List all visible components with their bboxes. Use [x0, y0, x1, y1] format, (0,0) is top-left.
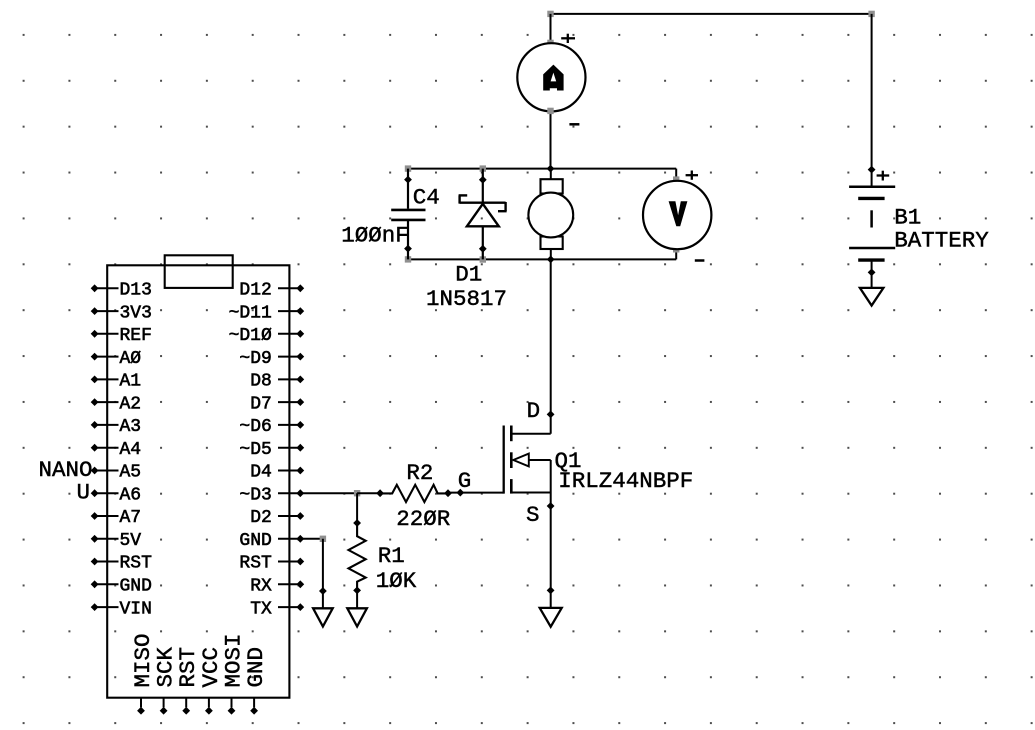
- svg-text:U: U: [76, 480, 90, 506]
- pin GND (right): [239, 531, 304, 551]
- svg-text:D12: D12: [239, 281, 271, 301]
- svg-text:D13: D13: [120, 281, 152, 301]
- svg-text:1N5817: 1N5817: [426, 286, 507, 312]
- svg-text:R1: R1: [378, 543, 405, 569]
- svg-text:RX: RX: [250, 577, 272, 597]
- value label 10K: [376, 568, 417, 594]
- junction: drain pin: [547, 411, 555, 419]
- svg-text:D1: D1: [455, 261, 482, 287]
- wire: down to ground: [319, 539, 327, 608]
- wire: lower rail C4/D1/motor/voltmeter: [405, 256, 676, 262]
- ground (battery): [860, 288, 884, 306]
- pin TX (right): [250, 599, 304, 619]
- pin RST (bottom): [175, 647, 201, 715]
- svg-text:5V: 5V: [120, 531, 142, 551]
- motor M1: [528, 169, 573, 260]
- svg-text:A7: A7: [120, 508, 142, 528]
- svg-text:~D6: ~D6: [239, 417, 271, 437]
- svg-text:A5: A5: [120, 463, 142, 483]
- pin GND (left): [91, 577, 152, 597]
- voltmeter circle: [643, 181, 711, 249]
- label G (gate): [458, 468, 472, 494]
- reference label B1: [894, 205, 921, 231]
- svg-text:GND: GND: [239, 531, 271, 551]
- pin D4 (right): [250, 463, 304, 483]
- diode D1 (schottky): [459, 169, 507, 260]
- battery + label: [877, 171, 890, 181]
- pin GND (bottom): [243, 647, 269, 715]
- pin A2 (left): [91, 394, 141, 414]
- svg-text:S: S: [526, 502, 540, 528]
- value label IRLZ44NBPF: [558, 468, 693, 494]
- pin D2 (right): [250, 508, 304, 528]
- ground (R1): [347, 608, 367, 626]
- svg-text:A2: A2: [120, 394, 142, 414]
- svg-text:D7: D7: [250, 394, 272, 414]
- pin ~D3 (right): [239, 485, 304, 505]
- pin AØ (left): [91, 349, 142, 369]
- svg-text:D4: D4: [250, 463, 272, 483]
- svg-text:~D5: ~D5: [239, 440, 271, 460]
- svg-text:1ØØnF: 1ØØnF: [341, 222, 409, 248]
- wire: voltmeter bottom stub: [673, 246, 679, 259]
- svg-text:REF: REF: [120, 326, 152, 346]
- label S (source): [526, 502, 540, 528]
- junction: R1 top on D3 wire: [354, 490, 360, 496]
- pin RX (right): [250, 577, 304, 597]
- wire: R1 to ground: [356, 590, 358, 608]
- svg-text:IRLZ44NBPF: IRLZ44NBPF: [558, 468, 693, 494]
- pin A6 (left): [91, 485, 141, 505]
- svg-text:A3: A3: [120, 417, 142, 437]
- reference label D1: [455, 261, 482, 287]
- wire: ~D3 pin to R1 junction: [300, 492, 357, 494]
- ground (nano GND): [313, 608, 333, 626]
- wire: voltmeter top stub: [673, 169, 679, 183]
- pin D7 (right): [250, 394, 304, 414]
- svg-text:TX: TX: [250, 599, 272, 619]
- wire: top rail ammeter to battery: [547, 11, 875, 17]
- pin ~D5 (right): [239, 440, 304, 460]
- pin A4 (left): [91, 440, 141, 460]
- transistor Q1 MOSFET: [504, 426, 551, 507]
- wire: battery drop from top rail: [871, 14, 873, 186]
- ammeter A1 circle: [517, 43, 585, 111]
- svg-text:C4: C4: [413, 185, 440, 211]
- svg-text:D: D: [527, 398, 541, 424]
- ammeter - terminal label: [569, 123, 579, 126]
- svg-text:1ØK: 1ØK: [376, 568, 417, 594]
- wire: lower rail to MOSFET drain: [550, 259, 552, 433]
- battery B1: [849, 187, 895, 288]
- svg-text:AØ: AØ: [120, 349, 142, 369]
- pin RST (left): [91, 554, 152, 574]
- svg-text:A1: A1: [120, 372, 142, 392]
- value label C4: [413, 185, 440, 211]
- reference label Q1: [555, 448, 582, 474]
- svg-text:BATTERY: BATTERY: [894, 227, 989, 253]
- ammeter + terminal label: [561, 34, 575, 43]
- Nano USB notch: [165, 255, 233, 288]
- svg-text:A4: A4: [120, 440, 142, 460]
- svg-text:~D3: ~D3: [239, 485, 271, 505]
- svg-text:VIN: VIN: [120, 599, 152, 619]
- wire: ammeter bottom to motor top rail: [547, 108, 553, 169]
- pin ~D6 (right): [239, 417, 304, 437]
- value label BATTERY: [894, 227, 989, 253]
- wire: source to ground: [547, 502, 555, 608]
- svg-text:A6: A6: [120, 485, 142, 505]
- Nano name label NANO: [38, 457, 92, 483]
- Arduino Nano U body: [107, 265, 289, 697]
- wire: junction down to R1: [353, 493, 361, 527]
- pin 5V (left): [91, 531, 142, 551]
- wire: upper rail C4/D1/motor/voltmeter: [405, 165, 676, 171]
- svg-text:~D9: ~D9: [239, 349, 271, 369]
- pin D12 (right): [239, 281, 304, 301]
- voltmeter - terminal label: [695, 259, 705, 262]
- pin A1 (left): [91, 372, 141, 392]
- reference label R2: [406, 460, 433, 486]
- svg-text:R2: R2: [406, 460, 433, 486]
- pin ~D9 (right): [239, 349, 304, 369]
- pin VIN (left): [91, 599, 152, 619]
- svg-text:GND: GND: [243, 647, 269, 688]
- pin ~D11 (right): [229, 303, 305, 323]
- pin MOSI (bottom): [220, 633, 246, 714]
- pin A3 (left): [91, 417, 141, 437]
- Nano reference label U: [76, 480, 90, 506]
- pin RST (right): [239, 554, 304, 574]
- ammeter A glyph: [543, 65, 563, 91]
- junction: ammeter wire on upper rail: [547, 165, 555, 173]
- value label 100nF: [341, 222, 409, 248]
- capacitor C4: [391, 169, 425, 260]
- svg-text:D8: D8: [250, 372, 272, 392]
- pin 3V3 (left): [91, 303, 152, 323]
- pin SCK (bottom): [153, 646, 179, 714]
- svg-text:D2: D2: [250, 508, 272, 528]
- svg-text:GND: GND: [120, 577, 152, 597]
- svg-text:~D1Ø: ~D1Ø: [229, 326, 272, 346]
- wire: nano GND pin right: [300, 536, 326, 542]
- label D (drain): [527, 398, 541, 424]
- pin D13 (left): [91, 281, 152, 301]
- svg-text:22ØR: 22ØR: [396, 506, 450, 532]
- reference label R1: [378, 543, 405, 569]
- resistor R1: [349, 523, 366, 594]
- junction: battery + pin: [868, 166, 876, 174]
- pin VCC (bottom): [198, 647, 224, 715]
- voltmeter V glyph: [669, 201, 688, 226]
- ground (MOSFET source): [540, 608, 562, 627]
- pin REF (left): [91, 326, 152, 346]
- pin D8 (right): [250, 372, 304, 392]
- wire: ammeter top stub: [547, 14, 553, 46]
- value label 1N5817: [426, 286, 507, 312]
- wire: R2 to gate: [448, 489, 504, 497]
- svg-text:3V3: 3V3: [120, 303, 152, 323]
- resistor R2: [380, 485, 452, 502]
- voltmeter + terminal label: [686, 171, 698, 180]
- svg-text:RST: RST: [239, 554, 272, 574]
- pin A5 (left): [91, 463, 141, 483]
- pin A7 (left): [91, 508, 141, 528]
- value label 220R: [396, 506, 450, 532]
- svg-text:RST: RST: [120, 554, 153, 574]
- pin ~D1Ø (right): [229, 326, 305, 346]
- junction: motor wire on lower rail: [547, 256, 555, 264]
- wire: junction to R2: [357, 489, 384, 497]
- svg-text:~D11: ~D11: [229, 303, 272, 323]
- pin MISO (bottom): [130, 633, 156, 714]
